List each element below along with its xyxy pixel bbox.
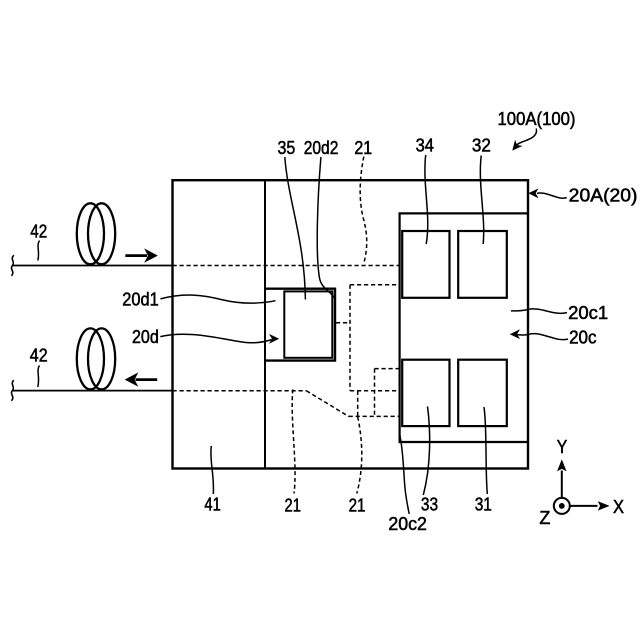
- svg-text:Z: Z: [539, 507, 550, 528]
- svg-text:20A(20): 20A(20): [569, 185, 638, 206]
- svg-text:33: 33: [421, 493, 438, 514]
- svg-text:20c1: 20c1: [568, 302, 608, 323]
- svg-text:21: 21: [285, 494, 301, 515]
- svg-text:32: 32: [472, 135, 491, 156]
- svg-text:20d1: 20d1: [122, 288, 159, 309]
- svg-text:20c2: 20c2: [388, 513, 427, 534]
- svg-text:20d: 20d: [132, 326, 159, 347]
- svg-text:21: 21: [349, 494, 366, 515]
- svg-text:42: 42: [30, 220, 47, 241]
- svg-text:41: 41: [204, 493, 220, 514]
- svg-text:20d2: 20d2: [304, 137, 339, 158]
- svg-text:X: X: [613, 496, 624, 517]
- svg-text:35: 35: [278, 137, 296, 158]
- svg-text:20c: 20c: [569, 327, 596, 348]
- svg-text:34: 34: [416, 135, 434, 156]
- svg-text:100A(100): 100A(100): [498, 108, 576, 129]
- svg-text:42: 42: [30, 345, 48, 366]
- svg-text:31: 31: [475, 493, 492, 514]
- svg-text:Y: Y: [557, 436, 568, 457]
- svg-text:21: 21: [354, 137, 372, 158]
